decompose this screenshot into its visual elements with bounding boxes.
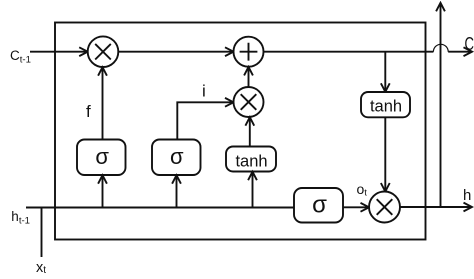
wire tanh2 down to multiply X3	[384, 117, 386, 191]
wire sigma2 up and right to X2 (i path)	[177, 102, 233, 139]
svg-text:σ: σ	[170, 144, 184, 169]
tanh box U3 (candidate)	[226, 147, 276, 172]
cell boundary rectangle	[55, 23, 426, 240]
wire X3 to h output	[400, 206, 472, 208]
wire X1 to add node	[118, 51, 233, 53]
wire h line up into sigma2	[176, 175, 178, 207]
multiply node X1 (forget gate)	[88, 36, 119, 67]
svg-text:i: i	[202, 82, 206, 101]
add node plus	[234, 37, 264, 67]
multiply node X3 (output gate)	[369, 192, 400, 223]
wire X2 up to add node	[248, 67, 250, 87]
svg-text:tanh: tanh	[370, 98, 402, 116]
svg-text:C: C	[465, 33, 474, 54]
wire add node to Ct output with hop	[264, 51, 434, 53]
wire xt vertical line	[41, 208, 43, 258]
wire h line up into sigma1	[102, 175, 104, 207]
multiply node X2 (input gate)	[234, 87, 264, 117]
wire Ct-1 to multiply X1	[30, 51, 88, 53]
tanh box U4 (output tanh)	[361, 92, 410, 117]
wire tanh1 up to X2	[249, 117, 251, 146]
wire h line up into tanh1	[252, 172, 254, 208]
svg-text:h: h	[463, 187, 471, 204]
svg-text:f: f	[86, 102, 91, 121]
svg-text:xt: xt	[36, 260, 46, 276]
wire ht-1 horizontal line	[26, 207, 294, 209]
svg-text:ot: ot	[357, 181, 368, 198]
svg-text:Ct-1: Ct-1	[10, 48, 31, 66]
wire ht branch up to top arrow	[440, 3, 442, 207]
wire sigma3 to X3	[343, 206, 369, 208]
wire C line junction down to tanh2	[384, 52, 386, 92]
sigma box U2 (input gate)	[152, 140, 201, 176]
sigma box U1 (forget gate)	[77, 140, 126, 176]
sigma box U5 (output gate)	[294, 188, 343, 223]
svg-text:σ: σ	[312, 192, 327, 219]
svg-text:tanh: tanh	[235, 152, 267, 170]
svg-text:ht-1: ht-1	[11, 209, 30, 227]
svg-text:σ: σ	[95, 144, 109, 169]
wire sigma1 up to X1	[102, 67, 104, 139]
